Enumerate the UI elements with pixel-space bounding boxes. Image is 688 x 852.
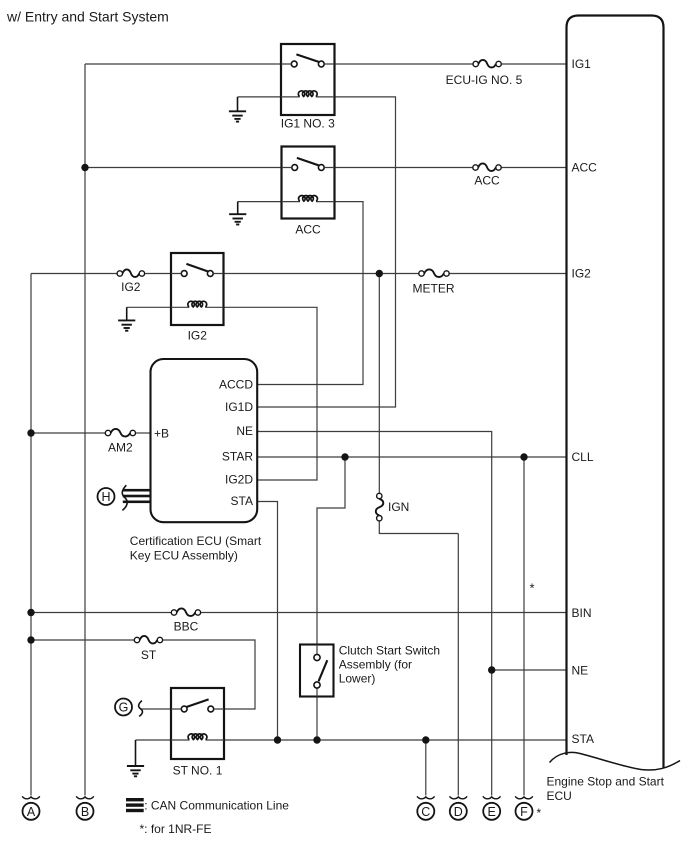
svg-text:Lower): Lower) [339, 672, 376, 686]
clutch start switch box [300, 645, 334, 697]
wire A rail vertical x=31 [30, 274, 32, 796]
svg-text:IG1D: IG1D [225, 400, 253, 414]
wire IG2 line: A rail to IG2 fuse [31, 273, 117, 275]
svg-text:STAR: STAR [222, 449, 253, 463]
svg-text:IG1: IG1 [572, 57, 592, 71]
break mark above connector C [417, 796, 435, 799]
svg-text:H: H [101, 490, 110, 504]
wire IG2 coil to cert ECU pin IG2D [224, 307, 318, 480]
junction B rail / ACC line [81, 164, 88, 171]
relay IG2 internal stubs [171, 274, 224, 308]
relay IG2 box [171, 253, 224, 325]
wire ACC line: relay to ACC fuse [324, 167, 473, 169]
wire ST NO. 1 coil to ground corner [136, 739, 172, 741]
break mark above connector A [22, 796, 40, 799]
wire D rail down to connector D [457, 534, 459, 796]
fuse AM2 [105, 429, 135, 437]
wire F rail: CLL line down to connector F [523, 457, 525, 796]
ECU "Engine Stop and Start ECU" outline [567, 16, 664, 769]
svg-text:Certification ECU (Smart: Certification ECU (Smart [130, 534, 262, 548]
ground of IG1 NO. 3 relay coil [229, 97, 246, 122]
svg-text:A: A [27, 805, 36, 819]
relay ST NO. 1 switch contacts [181, 706, 187, 712]
fuse ST [134, 636, 162, 644]
svg-text:Engine Stop and Start: Engine Stop and Start [547, 775, 665, 789]
svg-text:ECU: ECU [547, 789, 572, 803]
ECU torn-bottom wave [550, 752, 681, 770]
wire STA line: ST NO. 1 coil to ECU pin STA [224, 739, 567, 741]
wire ACC line: B rail to ACC relay switch [85, 167, 292, 169]
wire ACC coil to cert ECU pin ACCD [257, 202, 363, 385]
connector F (F rail) [516, 803, 533, 820]
svg-text:STA: STA [572, 732, 594, 746]
svg-text:w/ Entry and Start System: w/ Entry and Start System [6, 9, 169, 25]
wire IG1 line: fuse to ECU pin IG1 [501, 63, 566, 65]
break mark above connector E [483, 796, 501, 799]
junction STA line / clutch drop [313, 736, 320, 743]
fuse ACC [473, 163, 501, 171]
svg-text:IG1 NO. 3: IG1 NO. 3 [281, 117, 335, 131]
wire ACC coil to ground corner [238, 201, 282, 203]
svg-text:*: for 1NR-FE: *: for 1NR-FE [140, 822, 212, 836]
relay IG1 NO. 3 switch contacts [291, 61, 297, 67]
svg-text:BIN: BIN [572, 606, 592, 620]
fuse METER [419, 269, 449, 277]
relay IG2 switch contacts [181, 271, 187, 277]
svg-text:NE: NE [572, 663, 589, 677]
wire ST line: A rail to ST fuse [31, 639, 134, 641]
svg-text:C: C [421, 805, 430, 819]
wire E rail down to connector E [491, 670, 493, 796]
wire IG2 line: METER fuse to ECU pin IG2 [449, 273, 566, 275]
junction NE line / E rail [488, 666, 495, 673]
relay IG2 switch blade [186, 264, 208, 272]
CAN communication lines into certification ECU [123, 489, 151, 492]
clutch start switch blade [319, 660, 328, 681]
svg-text:D: D [454, 805, 463, 819]
wire STA line from cert ECU down to starter relay line [257, 502, 277, 741]
svg-text:METER: METER [413, 282, 455, 296]
connector D (D rail) [450, 803, 467, 820]
coil of IG2 [188, 301, 207, 307]
relay ACC box [282, 147, 335, 219]
svg-text:ACCD: ACCD [219, 377, 253, 391]
svg-text:ST: ST [141, 648, 157, 662]
svg-text:ECU-IG NO. 5: ECU-IG NO. 5 [446, 73, 523, 87]
relay ST NO. 1 box [171, 688, 224, 759]
svg-text:G: G [119, 701, 129, 715]
fuse IGN (vertical) [376, 493, 384, 521]
svg-text:IG2: IG2 [572, 266, 592, 280]
legend: CAN communication line symbol [126, 798, 144, 801]
svg-text:AM2: AM2 [108, 441, 133, 455]
junction CLL line / F rail [520, 453, 527, 460]
junction A rail / ST line [27, 636, 34, 643]
wire NE line to ECU pin NE [492, 669, 567, 671]
svg-text:ST NO. 1: ST NO. 1 [173, 764, 223, 778]
wire clutch switch to STA line [316, 697, 318, 741]
svg-text:IGN: IGN [388, 500, 409, 514]
relay IG1 NO. 3 box [281, 44, 335, 115]
junction STA line / C rail [422, 736, 429, 743]
svg-text:BBC: BBC [174, 620, 199, 634]
coil of ACC [299, 195, 318, 201]
connector H (CAN line continuation) [98, 488, 115, 505]
wire IG1 NO. 3 coil to ground corner [238, 96, 282, 98]
svg-text:+B: +B [154, 426, 169, 440]
svg-text:Clutch Start Switch: Clutch Start Switch [339, 644, 440, 658]
svg-text:F: F [520, 805, 528, 819]
wire IGN line: IG2 line down to IGN fuse [378, 274, 380, 494]
wire IG2 line: fuse to IG2 relay switch [145, 273, 182, 275]
svg-text:ACC: ACC [474, 174, 500, 188]
svg-text:ACC: ACC [295, 223, 321, 237]
junction STAR line / clutch branch [341, 453, 348, 460]
break mark above connector F [515, 796, 533, 799]
svg-text:B: B [81, 805, 89, 819]
break mark at connector H [122, 485, 127, 510]
svg-text:: CAN Communication Line: : CAN Communication Line [144, 799, 289, 813]
wire IG2 line: relay to METER fuse [214, 273, 419, 275]
Certification ECU (Smart Key ECU Assembly) box [151, 359, 258, 522]
wire +B line: fuse to cert ECU pin +B [136, 432, 151, 434]
connector B (B rail) [77, 803, 94, 820]
junction IG2 line / IGN feed [376, 270, 383, 277]
fuse ECU-IG NO. 5 [473, 60, 501, 68]
relay IG1 NO. 3 internal stubs [281, 64, 335, 97]
relay ST NO. 1 switch blade [186, 699, 208, 707]
wire STAR line: cert ECU to ECU pin CLL [257, 456, 566, 458]
svg-text:Key ECU Assembly): Key ECU Assembly) [130, 549, 238, 563]
wire IG2 coil to ground corner [127, 306, 171, 308]
wire ACC line: fuse to ECU pin ACC [501, 167, 566, 169]
ground of IG2 relay coil [118, 307, 135, 330]
connector E (E rail) [483, 803, 500, 820]
fuse IG2 [117, 269, 144, 277]
relay ACC switch blade [297, 158, 319, 166]
wire IGN line: fuse to D rail corner [379, 521, 458, 534]
connector C (C rail) [417, 803, 434, 820]
svg-text:Assembly (for: Assembly (for [339, 658, 412, 672]
svg-text:E: E [488, 805, 496, 819]
svg-text:ACC: ACC [572, 160, 598, 174]
ground of ST NO. 1 relay coil [127, 740, 144, 776]
wire NE line: cert ECU to down corner [257, 432, 492, 671]
fuse BBC [171, 608, 200, 616]
svg-text:*: * [537, 806, 542, 820]
connector A (A rail) [23, 803, 40, 820]
wire IG1 NO. 3 coil to cert ECU pin IG1D [257, 97, 395, 407]
ground of ACC relay coil [229, 202, 246, 225]
wire +B line: A rail to AM2 fuse [31, 432, 105, 434]
relay IG1 NO. 3 switch blade [296, 54, 319, 62]
coil of ST NO. 1 [188, 734, 207, 740]
wire C rail: STA line down to connector C [425, 740, 427, 796]
break mark above connector D [450, 796, 468, 799]
junction STA line / cert STA drop [274, 736, 281, 743]
junction A rail / BIN line [27, 609, 34, 616]
junction A rail / +B line [27, 429, 34, 436]
relay ACC switch contacts [292, 165, 298, 171]
svg-text:IG2: IG2 [188, 329, 208, 343]
wire ST line: fuse to ST NO. 1 switch [163, 640, 255, 709]
wire IG1 line: B rail to IG1 NO. 3 switch [85, 63, 292, 65]
relay ST NO. 1 internal stubs [171, 709, 224, 740]
wire IG1 line: relay to ECU-IG NO. 5 fuse [324, 63, 473, 65]
break mark at connector G [139, 701, 143, 717]
wire BIN line: A rail to BBC fuse [31, 612, 171, 614]
clutch start switch contacts [316, 645, 318, 697]
wire wire from connector G to ST NO. 1 switch [142, 708, 182, 710]
svg-text:IG2D: IG2D [225, 473, 253, 487]
svg-text:IG2: IG2 [121, 280, 141, 294]
coil of IG1 NO. 3 [298, 91, 317, 97]
wire STAR branch down to clutch start switch [317, 457, 345, 645]
wire BIN line: fuse to ECU pin BIN [201, 612, 567, 614]
svg-text:STA: STA [231, 494, 253, 508]
svg-text:CLL: CLL [572, 450, 594, 464]
wire B rail vertical x=85 [84, 64, 86, 796]
relay ACC internal stubs [282, 168, 335, 202]
break mark above connector B [76, 796, 94, 799]
svg-text:NE: NE [236, 424, 253, 438]
connector G (starter switch feed) [115, 699, 132, 716]
svg-text:*: * [530, 581, 535, 596]
